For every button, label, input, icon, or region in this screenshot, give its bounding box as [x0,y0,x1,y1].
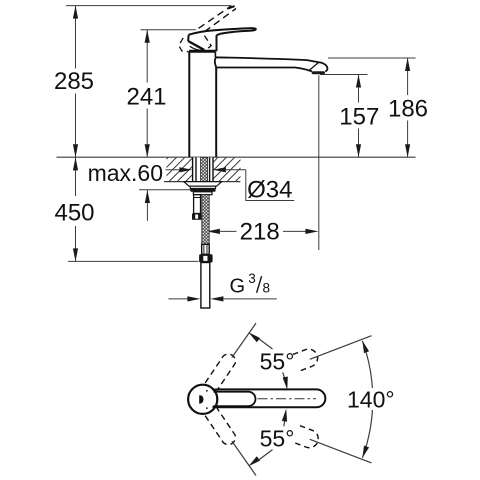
svg-text:241: 241 [126,84,166,111]
svg-text:8: 8 [263,281,271,296]
body circle [188,385,217,414]
arc arrow bottom [362,446,369,458]
extension line 450 bottom [68,260,199,262]
aerator extension line [318,75,320,250]
140 deg arc [362,341,372,458]
svg-text:G: G [230,276,246,298]
braided hose below counter [202,195,209,245]
braided hose in hole [201,157,208,181]
spout tip face line [309,62,319,70]
mounting nut dark band [190,188,215,191]
max60 bottom arrow [146,190,148,221]
svg-text:157: 157 [339,104,379,131]
dimension 241 line [146,30,148,157]
stud hex nut [192,214,201,220]
extension line 241 [141,29,196,31]
shank wall lines [193,157,213,181]
dashed spout end up [293,346,320,371]
dashed lever rotated down [205,408,235,445]
extension line 157 [320,74,368,76]
lever cap diagonal [188,41,204,50]
55 bottom leader to spout [284,413,286,427]
svg-text:55°: 55° [260,425,295,451]
svg-text:140°: 140° [347,386,395,412]
spout bottom edge [216,68,312,72]
dimension 450 line [75,157,77,261]
washer trapezoid [184,182,222,187]
spout (top view) [213,389,326,407]
hose connector nut [199,254,213,262]
svg-text:186: 186 [388,96,428,123]
dashed hidden edge right [204,36,211,50]
svg-text:450: 450 [54,200,94,227]
55 bottom leader to line [248,456,260,466]
55 top leader to spout [283,372,287,385]
svg-text:285: 285 [54,68,94,95]
lever cap bottom arc [190,46,204,50]
spout top edge [215,57,328,71]
body column left edge [188,52,190,158]
aerator [312,71,325,74]
raised lever tip dash [228,6,235,9]
body top [189,50,216,53]
G 3/8 arrows [169,298,189,300]
dashed raised lever line B [205,9,236,32]
55 deg line bottom [232,441,256,475]
svg-text:55°: 55° [260,348,295,374]
lever blade outline [189,28,256,35]
svg-text:218: 218 [240,219,280,246]
dashed lever rotated up [205,354,235,391]
small dots [206,390,208,392]
dashed raised lever back corner [179,38,189,52]
140 deg boundary line bottom [310,439,372,463]
svg-text:Ø34: Ø34 [247,176,292,203]
55 top leader to line [248,332,260,342]
dimension 157 line [358,75,360,158]
dimension 218 [207,229,220,234]
centerline dash-dot [258,398,317,400]
mounting nut upper ring [190,186,215,188]
threaded stud [194,195,201,214]
140 deg boundary line top [310,336,372,360]
cartridge mark [199,395,203,403]
55 deg line top [232,323,256,357]
svg-text:max.60: max.60 [88,160,163,186]
spout top step [214,52,216,57]
dashed spout end down [294,426,321,451]
body column right edge [215,68,217,158]
counter top line [57,156,416,158]
label 140 [348,388,395,410]
lever (top view) [214,392,256,406]
leader line O34 [246,170,294,201]
counter hatching [144,157,260,181]
shank in counter hole [192,157,213,181]
counter bottom line [164,181,240,183]
extension line top (285) [66,5,231,7]
connection tube G3/8 [201,263,210,309]
dashed raised lever line A [199,6,232,29]
hole diameter arrows [166,169,181,171]
lever cap left edge [187,35,190,41]
svg-text:3: 3 [248,271,256,286]
max60 bottom extension line [139,189,200,191]
hose ferrule [202,244,210,254]
lever cap right edge [216,35,218,51]
extension line 186 [328,57,416,59]
lower flange [193,192,212,195]
dimension 186 line [407,58,409,157]
arc arrow top [362,341,369,353]
dimension 285 line [75,6,77,157]
